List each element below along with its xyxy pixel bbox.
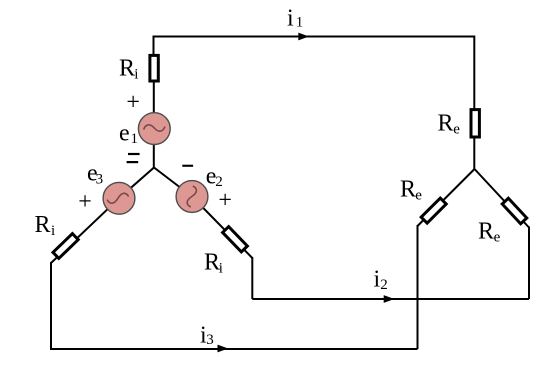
wire e1 branch vertical: [153, 81, 155, 168]
svg-text:1: 1: [131, 131, 139, 147]
label Re right: [438, 111, 461, 138]
svg-text:3: 3: [96, 172, 104, 188]
wire left vertical of e3 branch: [50, 262, 52, 349]
svg-text:e: e: [453, 122, 460, 138]
resistor R4 (Re right side, vertical): [471, 110, 479, 137]
arrow i1: [298, 33, 309, 41]
svg-text:R: R: [478, 218, 494, 244]
label i1: [287, 6, 303, 32]
wire left load vertical: [417, 225, 419, 349]
label e2: [206, 164, 223, 191]
label e3: [87, 161, 103, 188]
resistor R1 (Ri top, vertical): [150, 55, 158, 81]
svg-text:i: i: [219, 260, 223, 276]
label Re center: [478, 218, 501, 245]
label Ri left: [35, 212, 56, 239]
svg-text:+: +: [218, 188, 232, 214]
node load star apex: [418, 169, 530, 228]
label e1: [119, 121, 138, 148]
svg-text:R: R: [400, 177, 416, 203]
svg-text:+: +: [126, 90, 140, 116]
wire right load vertical: [528, 227, 530, 300]
wire bottom i3: [50, 348, 418, 350]
wire e2 branch vertical: [251, 257, 253, 299]
source e3: [103, 182, 135, 214]
wire top from e1 branch to right side: [154, 37, 475, 110]
wire e2 diagonal to corner: [192, 197, 252, 259]
label Re left: [400, 177, 422, 204]
svg-text:e: e: [119, 121, 130, 147]
resistor R3 (Ri on e3 branch, diagonal): [53, 234, 78, 259]
minus terminal of e3: [127, 161, 139, 163]
svg-text:2: 2: [380, 277, 388, 293]
resistor R2 (Ri on e2 branch, diagonal): [223, 227, 248, 252]
wire Re to load apex: [473, 137, 475, 169]
node star point of sources: [119, 168, 192, 199]
source e2: [176, 181, 208, 213]
svg-text:1: 1: [296, 15, 304, 31]
svg-text:R: R: [35, 212, 51, 238]
resistor R5 (Re left load branch, diagonal): [421, 198, 446, 223]
wire e3 diagonal to lower left corner: [51, 198, 119, 263]
wire i2 horizontal: [252, 298, 529, 300]
svg-text:i: i: [287, 6, 294, 32]
minus terminal of e1: [128, 153, 140, 155]
svg-text:R: R: [119, 56, 135, 82]
svg-text:i: i: [134, 67, 138, 83]
label Ri right: [204, 249, 223, 276]
svg-text:+: +: [78, 189, 92, 215]
resistor R6 (Re right load branch, diagonal): [502, 198, 527, 223]
svg-text:R: R: [204, 249, 220, 275]
minus terminal of e2: [182, 165, 193, 167]
svg-text:e: e: [415, 188, 422, 204]
svg-text:i: i: [51, 223, 55, 239]
label Ri top: [119, 56, 138, 83]
source e1: [138, 113, 170, 145]
svg-text:R: R: [438, 111, 454, 137]
arrow i2: [384, 295, 395, 303]
label i2: [374, 267, 388, 293]
label i3: [200, 323, 214, 349]
svg-text:3: 3: [206, 332, 214, 348]
svg-text:e: e: [494, 229, 501, 245]
arrow i3: [218, 345, 229, 353]
